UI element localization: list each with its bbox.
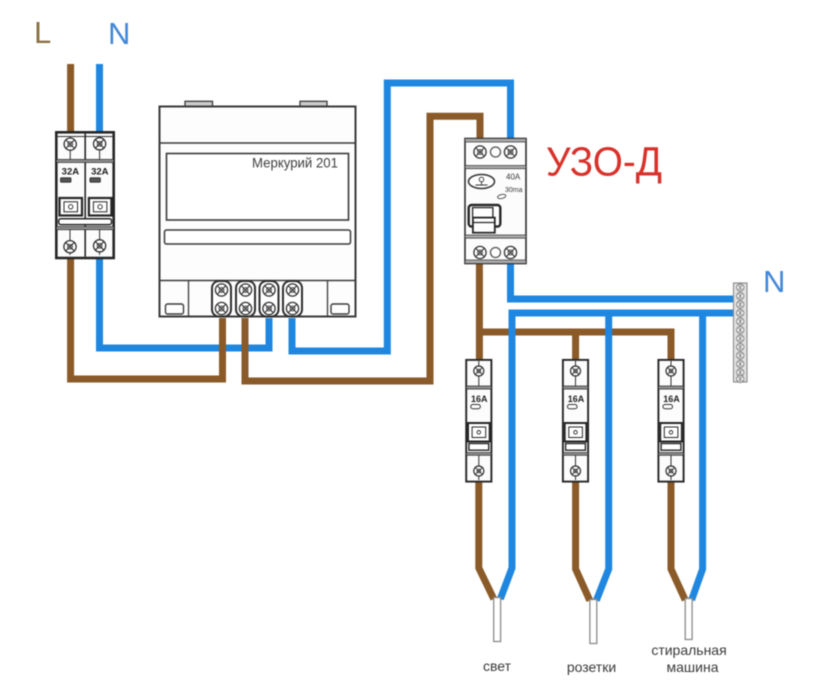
RCD УЗО-Д — [465, 139, 526, 264]
wire N drop to cable стиральная машина — [692, 313, 703, 600]
svg-text:стиральная: стиральная — [651, 642, 726, 658]
wire SF2 out to cable розетки — [576, 478, 590, 601]
wire meter terminal 2 (L out) to RCD top — [245, 116, 480, 381]
svg-text:розетки: розетки — [567, 659, 616, 675]
wire RCD L-out feeding breakers SF1 SF2 SF3 — [476, 260, 671, 363]
cable to розетки — [590, 600, 597, 644]
svg-text:свет: свет — [483, 658, 512, 674]
wire SF1 out to cable свет — [479, 478, 494, 599]
wire RCD N-out to N busbar — [511, 260, 739, 299]
meter terminal 4 — [283, 281, 302, 317]
wire QF1 L-pole to meter terminal 1 — [71, 256, 223, 379]
breaker SF2 16A розетки — [563, 360, 588, 482]
wire N drop to cable розетки — [596, 313, 608, 601]
svg-text:40A: 40A — [506, 173, 521, 182]
cable to стиральная машина — [685, 599, 692, 640]
breaker SF3 16A стиральная машина — [658, 360, 683, 482]
svg-text:32A: 32A — [91, 167, 109, 178]
svg-text:L: L — [34, 15, 51, 50]
meter terminal 2 — [236, 281, 255, 317]
svg-text:N: N — [108, 16, 130, 51]
breaker SF1 16A свет — [466, 360, 491, 482]
svg-text:Меркурий 201: Меркурий 201 — [252, 155, 338, 171]
wire N supply to breaker QF1 — [96, 64, 103, 136]
electricity meter Меркурий 201 — [160, 101, 356, 316]
wire QF1 N-pole to meter terminal 3 — [100, 256, 270, 348]
meter terminal 3 — [260, 281, 279, 317]
N busbar — [734, 283, 748, 383]
svg-text:УЗО-Д: УЗО-Д — [546, 139, 662, 185]
wire SF3 out to cable стиральная машина — [671, 478, 685, 600]
svg-text:30ma: 30ma — [505, 187, 523, 194]
wire L supply to breaker QF1 — [67, 64, 74, 136]
svg-text:32A: 32A — [62, 167, 80, 178]
wire meter terminal 4 (N out) to RCD top — [292, 83, 511, 351]
svg-text:машина: машина — [667, 659, 719, 675]
wire N busbar to cable свет — [500, 313, 738, 599]
meter terminal 1 — [212, 281, 231, 317]
svg-text:N: N — [763, 264, 785, 299]
circuit breaker QF1 2-pole 32A — [56, 132, 113, 258]
cable to свет — [494, 598, 501, 642]
